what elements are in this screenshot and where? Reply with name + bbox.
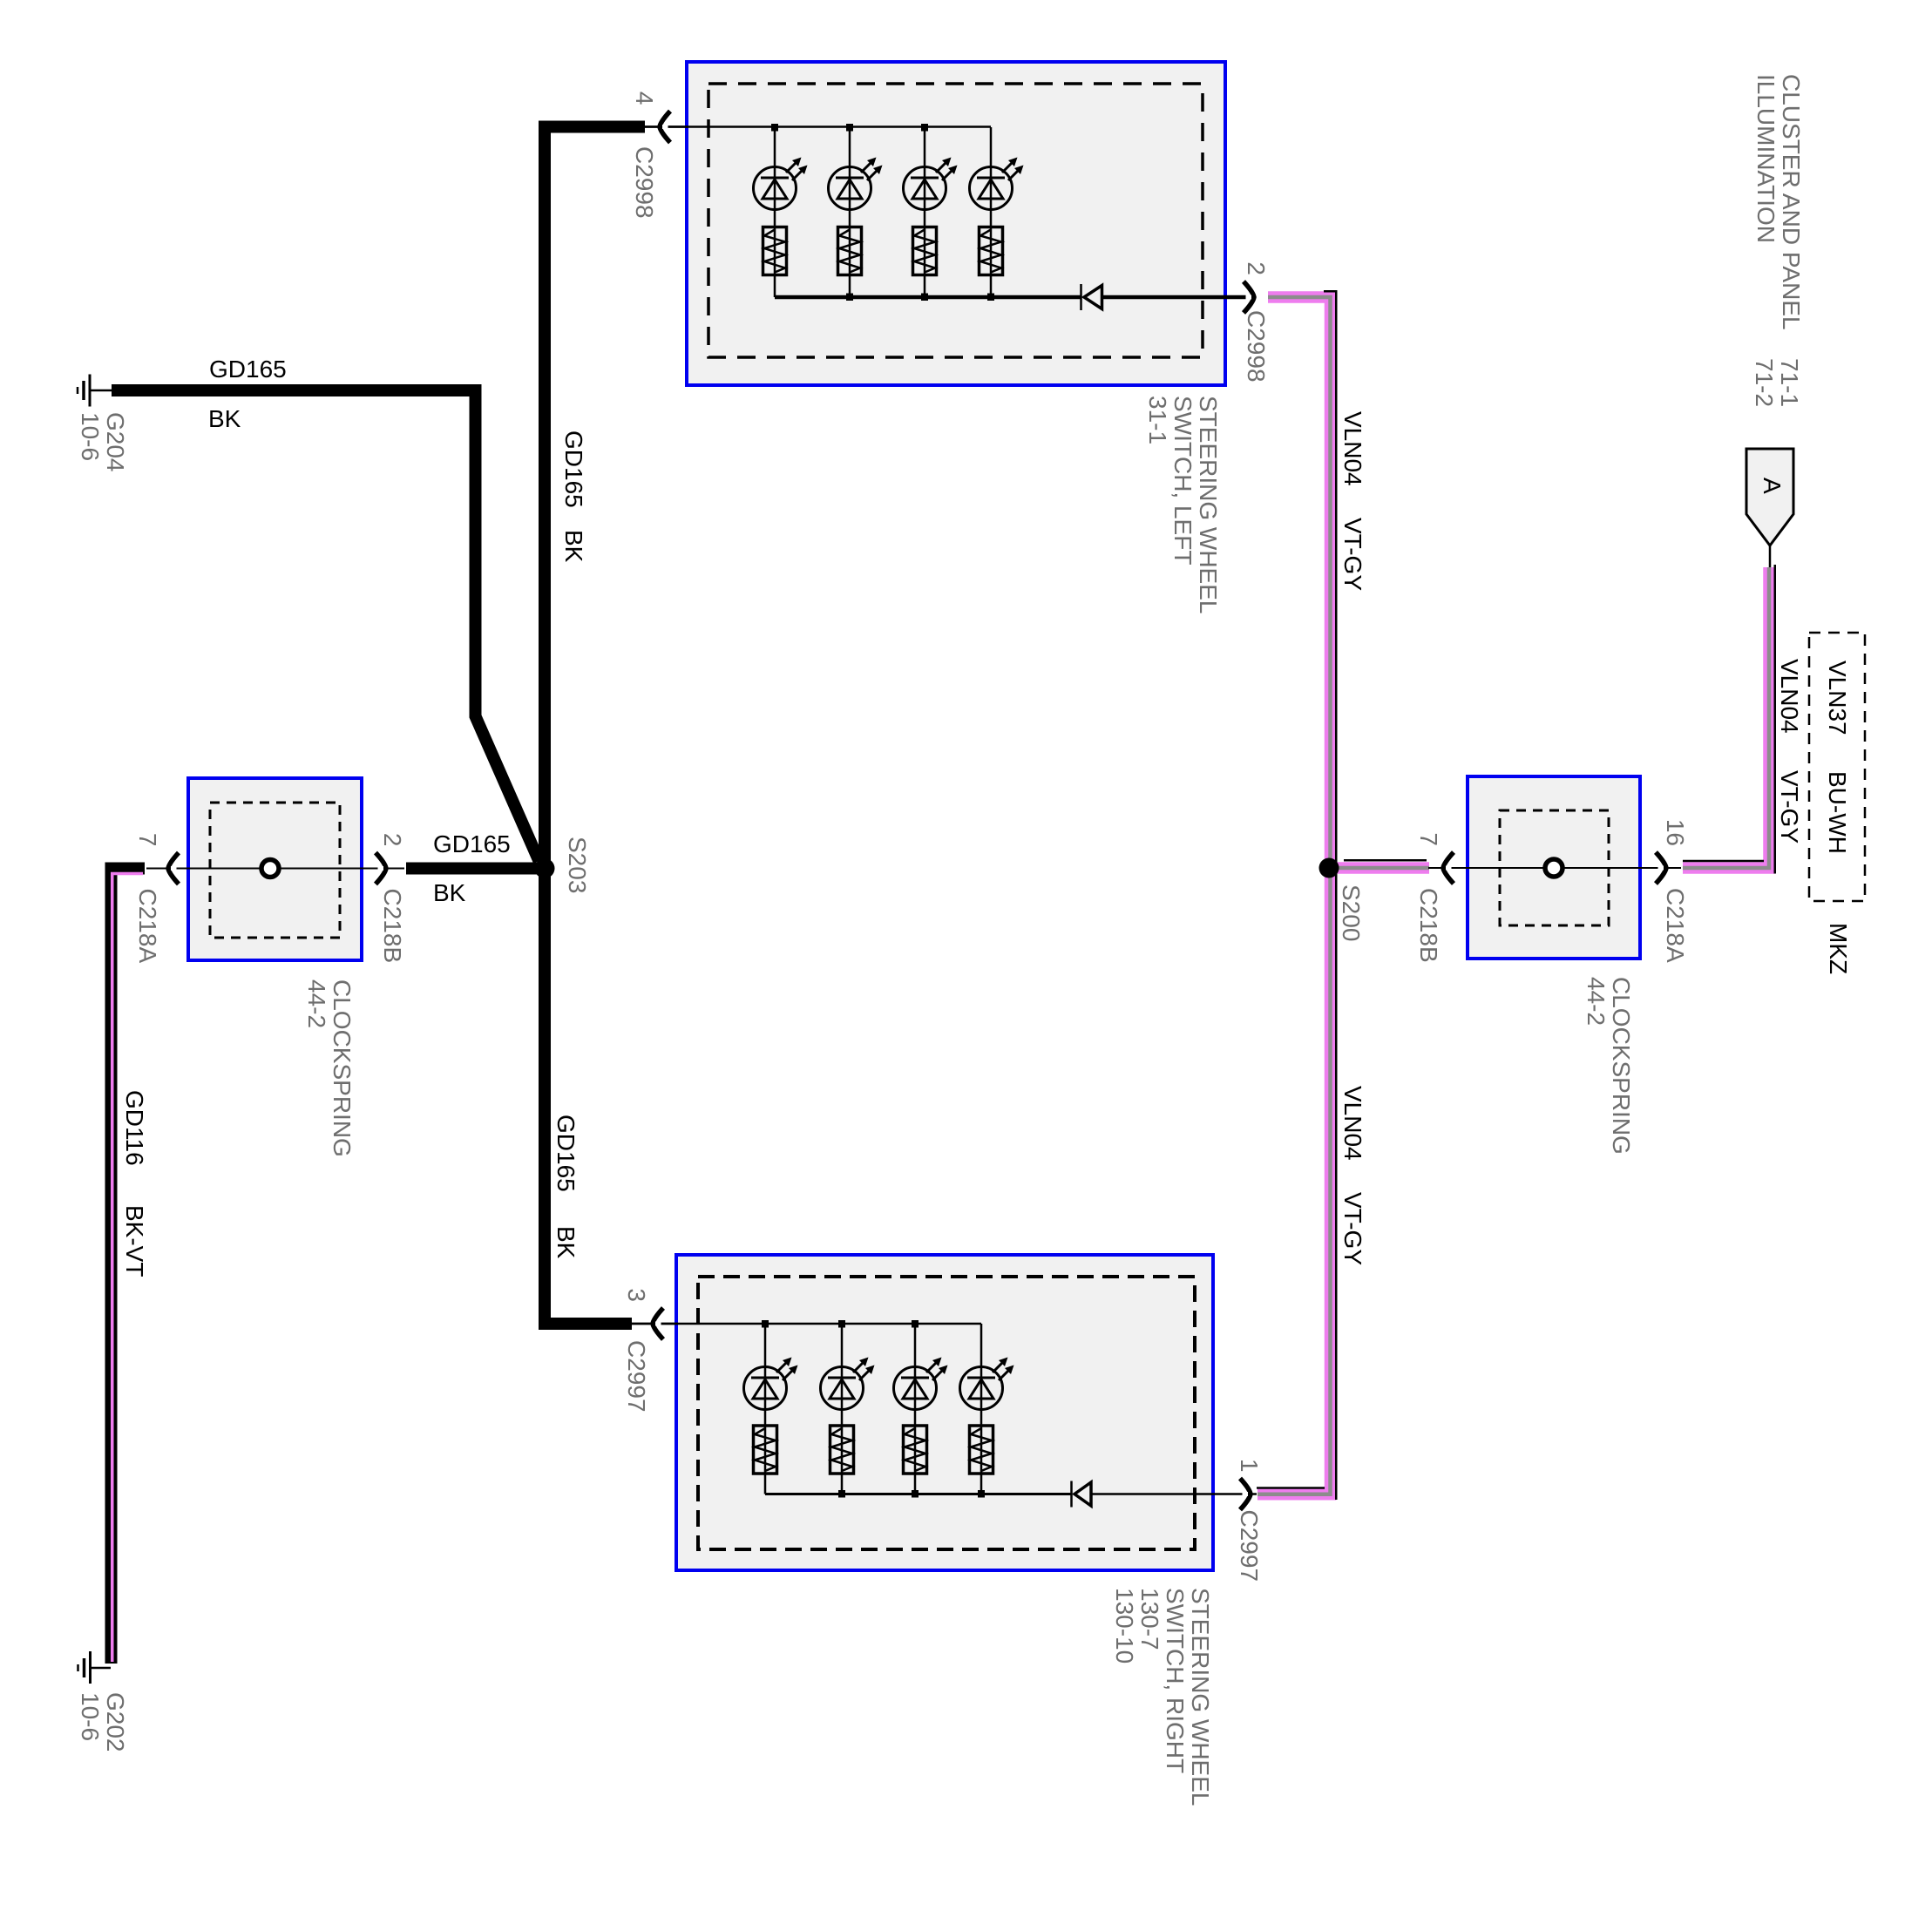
component box: CLOCKSPRING (left) — [188, 778, 362, 960]
wire stub from connector A — [1769, 546, 1772, 568]
svg-text:3: 3 — [623, 1288, 650, 1302]
svg-text:1: 1 — [1236, 1459, 1263, 1473]
svg-text:MKZ: MKZ — [1825, 923, 1852, 974]
label CLOCKSPRING 44-2 (right) — [1583, 977, 1635, 1155]
pin 2 C218B (clockspring left) — [376, 833, 406, 963]
svg-text:VT-GY: VT-GY — [1339, 1192, 1366, 1265]
harness reference box VLN37 BU-WH — [1809, 633, 1865, 901]
svg-text:10-6: 10-6 — [77, 412, 104, 461]
pin 7 C218A (clockspring left) — [134, 833, 179, 964]
splice S200 — [1319, 858, 1366, 942]
wire VLN04 VT-GY from switch C2998 pin 2 through S200 to switch C2997 pin 1 — [1257, 291, 1336, 1500]
title: CLUSTER AND PANEL ILLUMINATION — [1752, 74, 1805, 330]
wire GD165 BK from clockspring C218B pin 2 to splice S203 — [406, 863, 540, 875]
svg-text:2: 2 — [379, 833, 406, 847]
wire VLN04 VT-GY from connector A to clockspring C218A pin 16 — [1683, 565, 1775, 874]
svg-text:7: 7 — [134, 833, 161, 847]
svg-text:VT-GY: VT-GY — [1339, 518, 1366, 591]
svg-text:10-6: 10-6 — [77, 1692, 104, 1741]
wire: LED branch 3 (switch right) — [912, 1320, 919, 1498]
svg-text:VT-GY: VT-GY — [1776, 770, 1803, 844]
label STEERING WHEEL SWITCH, LEFT 31-1 — [1144, 396, 1222, 613]
resistor 3 (switch left) — [913, 227, 937, 275]
label VLN04 VT-GY (lower segment) — [1339, 1086, 1366, 1265]
LED 4 (switch right) — [960, 1358, 1014, 1410]
splice S203 — [535, 837, 592, 893]
wire: diode to pin 1 (switch right) — [1091, 1493, 1257, 1495]
svg-text:VLN04: VLN04 — [1776, 659, 1803, 734]
wire: LED branch 2 (switch left) — [846, 124, 853, 301]
label CLOCKSPRING 44-2 (left) — [303, 979, 356, 1157]
wire GD165 BK from switch C2998 pin 4 through S203 to switch C2997 pin 3 — [545, 127, 645, 1325]
vehicle label MKZ — [1825, 923, 1852, 974]
svg-text:BK: BK — [552, 1226, 580, 1259]
svg-text:C218B: C218B — [379, 889, 406, 964]
label GD165 BK (upper vertical) — [560, 430, 587, 563]
wire: internal line through clockspring (left) — [146, 868, 404, 870]
resistor 1 (switch left) — [763, 227, 787, 275]
svg-text:VLN04: VLN04 — [1339, 411, 1366, 486]
svg-text:C218B: C218B — [1415, 888, 1442, 963]
pin 7 C218B (clockspring right) — [1415, 832, 1454, 962]
wire: internal top bus (switch left) — [643, 125, 991, 128]
svg-text:SWITCH, LEFT: SWITCH, LEFT — [1169, 396, 1196, 565]
wire GD165 BK from ground G204 to splice S203 — [112, 390, 539, 861]
svg-text:VLN04: VLN04 — [1339, 1086, 1366, 1161]
LED 4 (switch left) — [970, 158, 1024, 210]
svg-text:7: 7 — [1415, 832, 1442, 846]
svg-text:A: A — [1759, 478, 1786, 494]
wire GD116 BK-VT from clockspring C218A pin 7 to ground G202 — [112, 869, 146, 1664]
svg-text:BU-WH: BU-WH — [1824, 771, 1851, 854]
svg-text:C218A: C218A — [134, 889, 161, 964]
component box: STEERING WHEEL SWITCH, RIGHT — [676, 1255, 1213, 1570]
wire: internal bottom bus (switch left) — [775, 295, 1081, 300]
svg-text:44-2: 44-2 — [303, 979, 330, 1028]
component box: CLOCKSPRING (right) — [1468, 776, 1640, 959]
svg-text:GD116: GD116 — [121, 1090, 148, 1166]
resistor 2 (switch right) — [830, 1426, 854, 1474]
svg-text:C2997: C2997 — [1236, 1510, 1263, 1582]
svg-text:BK: BK — [208, 405, 241, 432]
resistor 1 (switch right) — [754, 1426, 777, 1474]
off-page connector A — [1746, 449, 1793, 546]
LED 2 (switch right) — [821, 1358, 875, 1410]
resistor 2 (switch left) — [838, 227, 862, 275]
label VLN04 VT-GY (right vertical wire) — [1776, 659, 1803, 844]
clockspring coil symbol (right) — [1545, 859, 1563, 877]
svg-text:GD165: GD165 — [552, 1115, 580, 1192]
wire: LED branch 2 (switch right) — [838, 1320, 845, 1498]
svg-text:VLN37: VLN37 — [1824, 661, 1851, 735]
svg-text:BK: BK — [433, 879, 466, 906]
pin 1 C2997 (switch right) — [1236, 1459, 1263, 1582]
diode (switch left) — [1081, 284, 1102, 310]
svg-text:130-7: 130-7 — [1136, 1588, 1163, 1650]
svg-text:CLOCKSPRING: CLOCKSPRING — [329, 979, 356, 1157]
svg-text:BK-VT: BK-VT — [121, 1205, 148, 1277]
LED 3 (switch left) — [904, 158, 958, 210]
wire: LED branch 3 (switch left) — [921, 124, 928, 301]
svg-text:STEERING WHEEL: STEERING WHEEL — [1187, 1588, 1214, 1806]
label STEERING WHEEL SWITCH, RIGHT 130-7 130-10 — [1111, 1588, 1214, 1806]
label GD116 BK-VT — [121, 1090, 148, 1277]
svg-text:71-1: 71-1 — [1776, 358, 1803, 407]
wire: internal top bus (switch right) — [630, 1323, 981, 1325]
pin 2 C2998 (switch left) — [1243, 261, 1270, 382]
svg-text:CLUSTER AND PANEL: CLUSTER AND PANEL — [1778, 74, 1805, 330]
wire: internal line through clockspring (right) — [1428, 867, 1681, 869]
svg-text:C2997: C2997 — [623, 1340, 650, 1413]
pin 3 C2997 (switch right) — [623, 1288, 678, 1412]
LED 1 (switch right) — [744, 1358, 798, 1410]
svg-text:4: 4 — [631, 91, 658, 105]
svg-text:S200: S200 — [1338, 884, 1365, 941]
wire: LED branch 1 (switch right) — [762, 1320, 769, 1494]
wire: LED branch 1 (switch left) — [771, 124, 778, 297]
svg-text:C2998: C2998 — [631, 146, 658, 219]
LED 3 (switch right) — [894, 1358, 948, 1410]
LED 2 (switch left) — [829, 158, 883, 210]
wire: LED branch 4 (switch right) — [978, 1324, 985, 1498]
label GD165 BK (G204 wire) — [208, 356, 287, 432]
svg-text:G202: G202 — [102, 1692, 129, 1752]
pin 16 C218A (clockspring right) — [1656, 819, 1689, 963]
svg-text:C218A: C218A — [1662, 888, 1689, 963]
label GD165 BK (lower vertical) — [552, 1115, 580, 1259]
svg-text:ILLUMINATION: ILLUMINATION — [1752, 74, 1779, 243]
svg-text:SWITCH, RIGHT: SWITCH, RIGHT — [1162, 1588, 1189, 1773]
label GD165 BK (C218B wire) — [433, 830, 511, 906]
wire: LED branch 4 (switch left) — [987, 127, 994, 301]
svg-text:71-2: 71-2 — [1751, 358, 1778, 407]
svg-text:STEERING WHEEL: STEERING WHEEL — [1195, 396, 1222, 613]
svg-text:S203: S203 — [564, 837, 591, 893]
resistor 4 (switch left) — [980, 227, 1003, 275]
svg-text:GD165: GD165 — [433, 830, 511, 857]
page references 71-1 / 71-2 — [1751, 358, 1803, 407]
svg-text:BK: BK — [560, 530, 587, 563]
LED 1 (switch left) — [754, 158, 808, 210]
resistor 3 (switch right) — [904, 1426, 927, 1474]
svg-text:31-1: 31-1 — [1144, 396, 1171, 444]
component box: STEERING WHEEL SWITCH, LEFT — [687, 62, 1225, 385]
resistor 4 (switch right) — [970, 1426, 993, 1474]
svg-text:44-2: 44-2 — [1583, 977, 1610, 1026]
ground G202 — [77, 1651, 129, 1752]
svg-text:C2998: C2998 — [1243, 310, 1270, 383]
svg-text:16: 16 — [1662, 819, 1689, 846]
label VLN04 VT-GY (upper segment) — [1339, 411, 1366, 591]
clockspring coil symbol (left) — [261, 860, 279, 878]
svg-text:G204: G204 — [102, 412, 129, 472]
pin 4 C2998 (switch left) — [631, 91, 688, 219]
svg-text:GD165: GD165 — [209, 356, 287, 383]
ground G204 — [77, 375, 129, 472]
diode (switch right) — [1072, 1481, 1092, 1508]
wire: internal bottom bus (switch right) — [765, 1493, 1071, 1495]
svg-text:130-10: 130-10 — [1111, 1588, 1138, 1664]
svg-text:GD165: GD165 — [560, 430, 587, 508]
wire: diode to pin 2 (switch left) — [1102, 295, 1256, 300]
svg-text:2: 2 — [1243, 261, 1270, 275]
svg-text:CLOCKSPRING: CLOCKSPRING — [1608, 977, 1635, 1155]
wire VT-GY from splice S200 to clockspring C218B pin 7 — [1329, 860, 1429, 868]
